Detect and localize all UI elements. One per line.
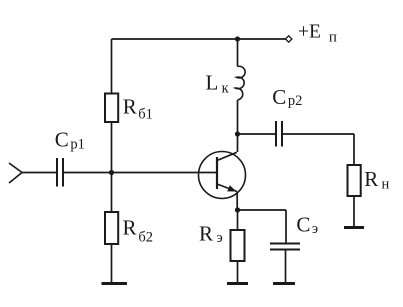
capacitor Cр1 xyxy=(57,158,63,187)
wire Rб2 to ground xyxy=(111,244,113,283)
resistor Rб2 xyxy=(105,212,118,244)
wire Rб1 to base node xyxy=(111,122,113,173)
wire collector node to Cр2 xyxy=(238,133,276,135)
wire collector node to transistor collector xyxy=(237,134,239,152)
ground Rн xyxy=(344,226,364,229)
wire emitter node to Rэ xyxy=(237,210,239,230)
capacitor Cр2 xyxy=(276,121,282,147)
terminal +Eп xyxy=(286,36,292,42)
wire Cр1 to transistor base xyxy=(64,172,217,174)
wire Rн to ground xyxy=(353,196,355,227)
wire Lк to collector node xyxy=(237,100,239,134)
resistor Rб1 xyxy=(105,94,118,123)
resistor Rэ xyxy=(231,230,245,261)
transistor emitter arrow xyxy=(227,185,236,191)
junction node emitter xyxy=(235,207,240,212)
wire Cэ to ground xyxy=(285,250,287,283)
junction node top bus / collector branch xyxy=(235,36,240,41)
wire transistor emitter to emitter node xyxy=(236,192,238,211)
wire top supply bus xyxy=(112,38,286,40)
transistor collector lead xyxy=(217,152,237,160)
ground Cэ xyxy=(273,282,295,285)
transistor VT body circle xyxy=(199,152,246,199)
wire right corner down to Rн xyxy=(353,134,355,165)
capacitor Cэ xyxy=(270,244,300,250)
wire emitter node to Cэ branch xyxy=(238,209,287,211)
wire input to Cр1 xyxy=(22,172,56,174)
wire Cэ branch down xyxy=(285,210,287,243)
transistor base bar xyxy=(216,157,218,189)
ground Rэ xyxy=(227,282,248,285)
resistor Rн xyxy=(348,165,361,196)
transistor emitter lead xyxy=(217,184,237,192)
input chevron xyxy=(9,163,22,183)
inductor Lк xyxy=(236,66,246,100)
wire top bus down to Rб1 xyxy=(111,39,113,94)
wire Cр2 to right corner xyxy=(283,133,354,135)
junction node collector xyxy=(235,131,240,136)
wire top junction down to Lк xyxy=(237,39,239,67)
ground Rб2 xyxy=(102,282,128,285)
wire Rэ to ground xyxy=(237,261,239,283)
wire base node down to Rб2 xyxy=(111,173,113,213)
junction node base xyxy=(109,170,114,175)
